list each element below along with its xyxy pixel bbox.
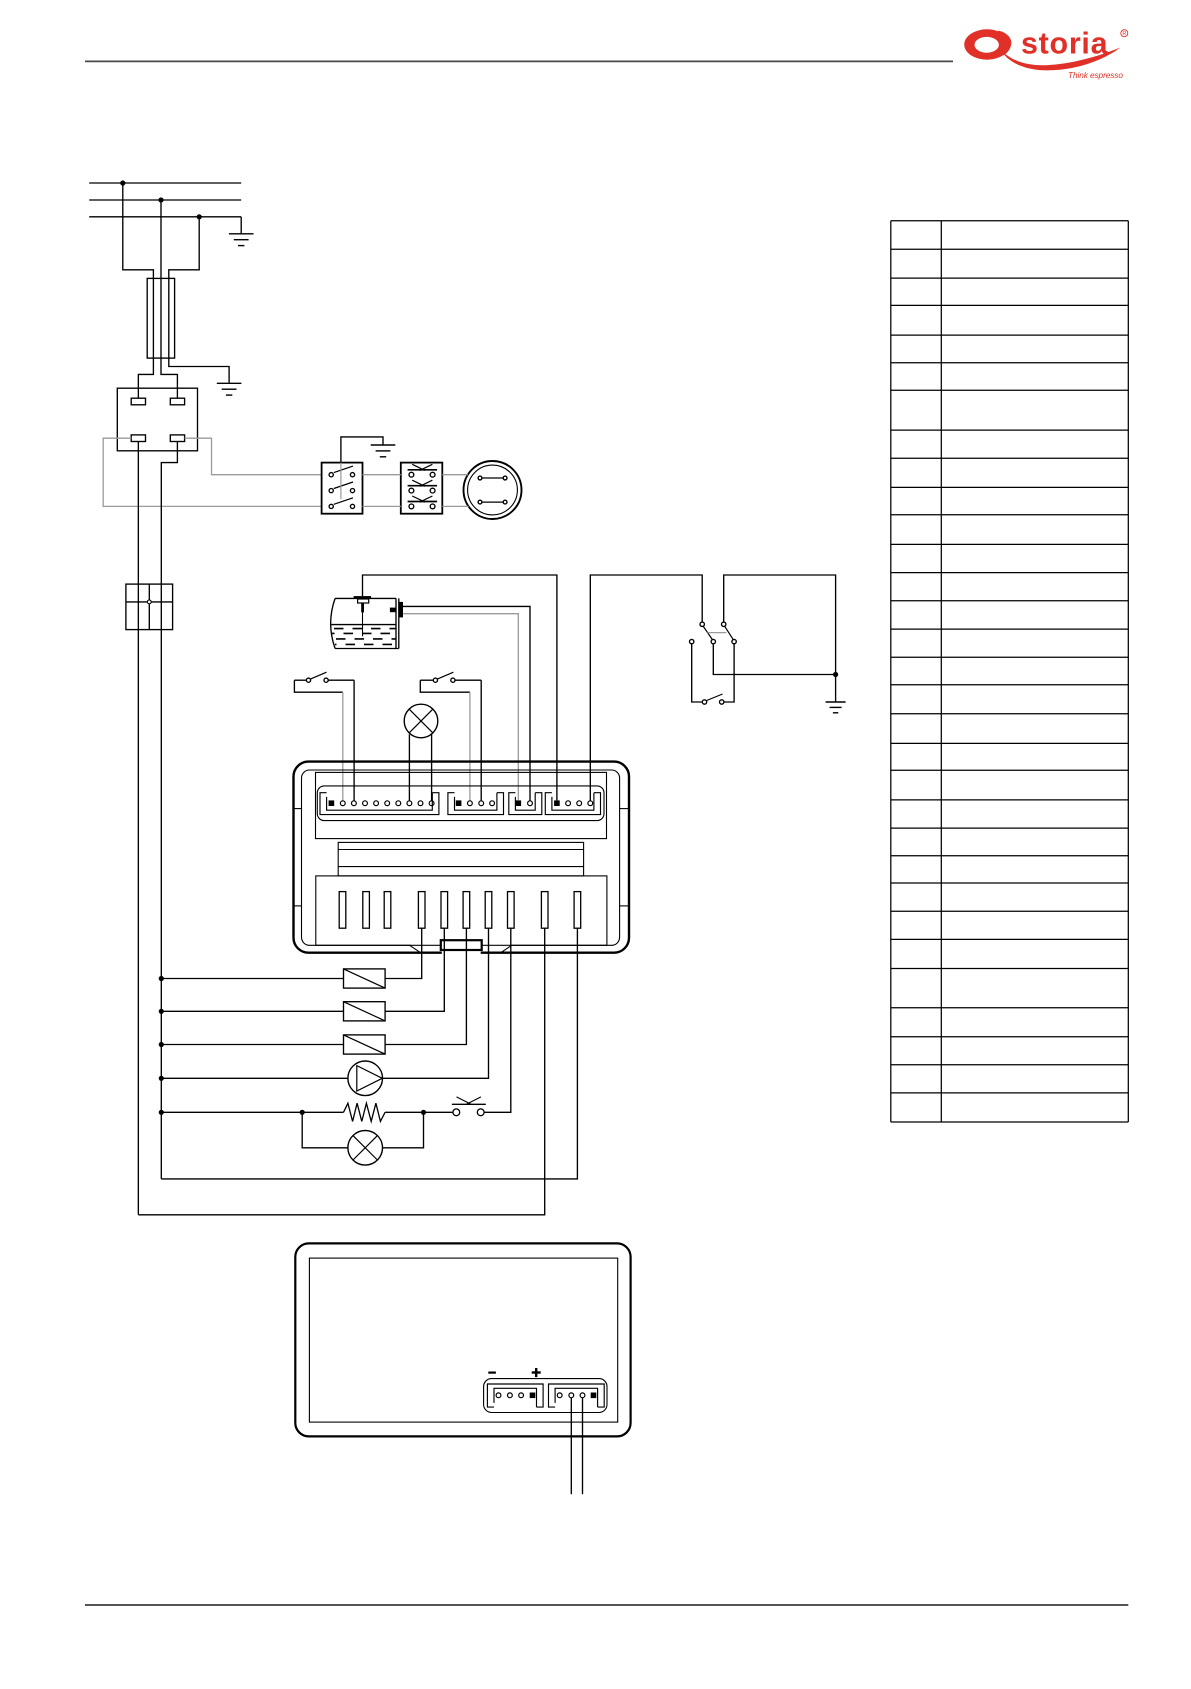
svg-text:storia: storia: [1021, 27, 1109, 61]
svg-text:Think espresso: Think espresso: [1068, 70, 1123, 80]
svg-text:R: R: [1122, 31, 1126, 37]
